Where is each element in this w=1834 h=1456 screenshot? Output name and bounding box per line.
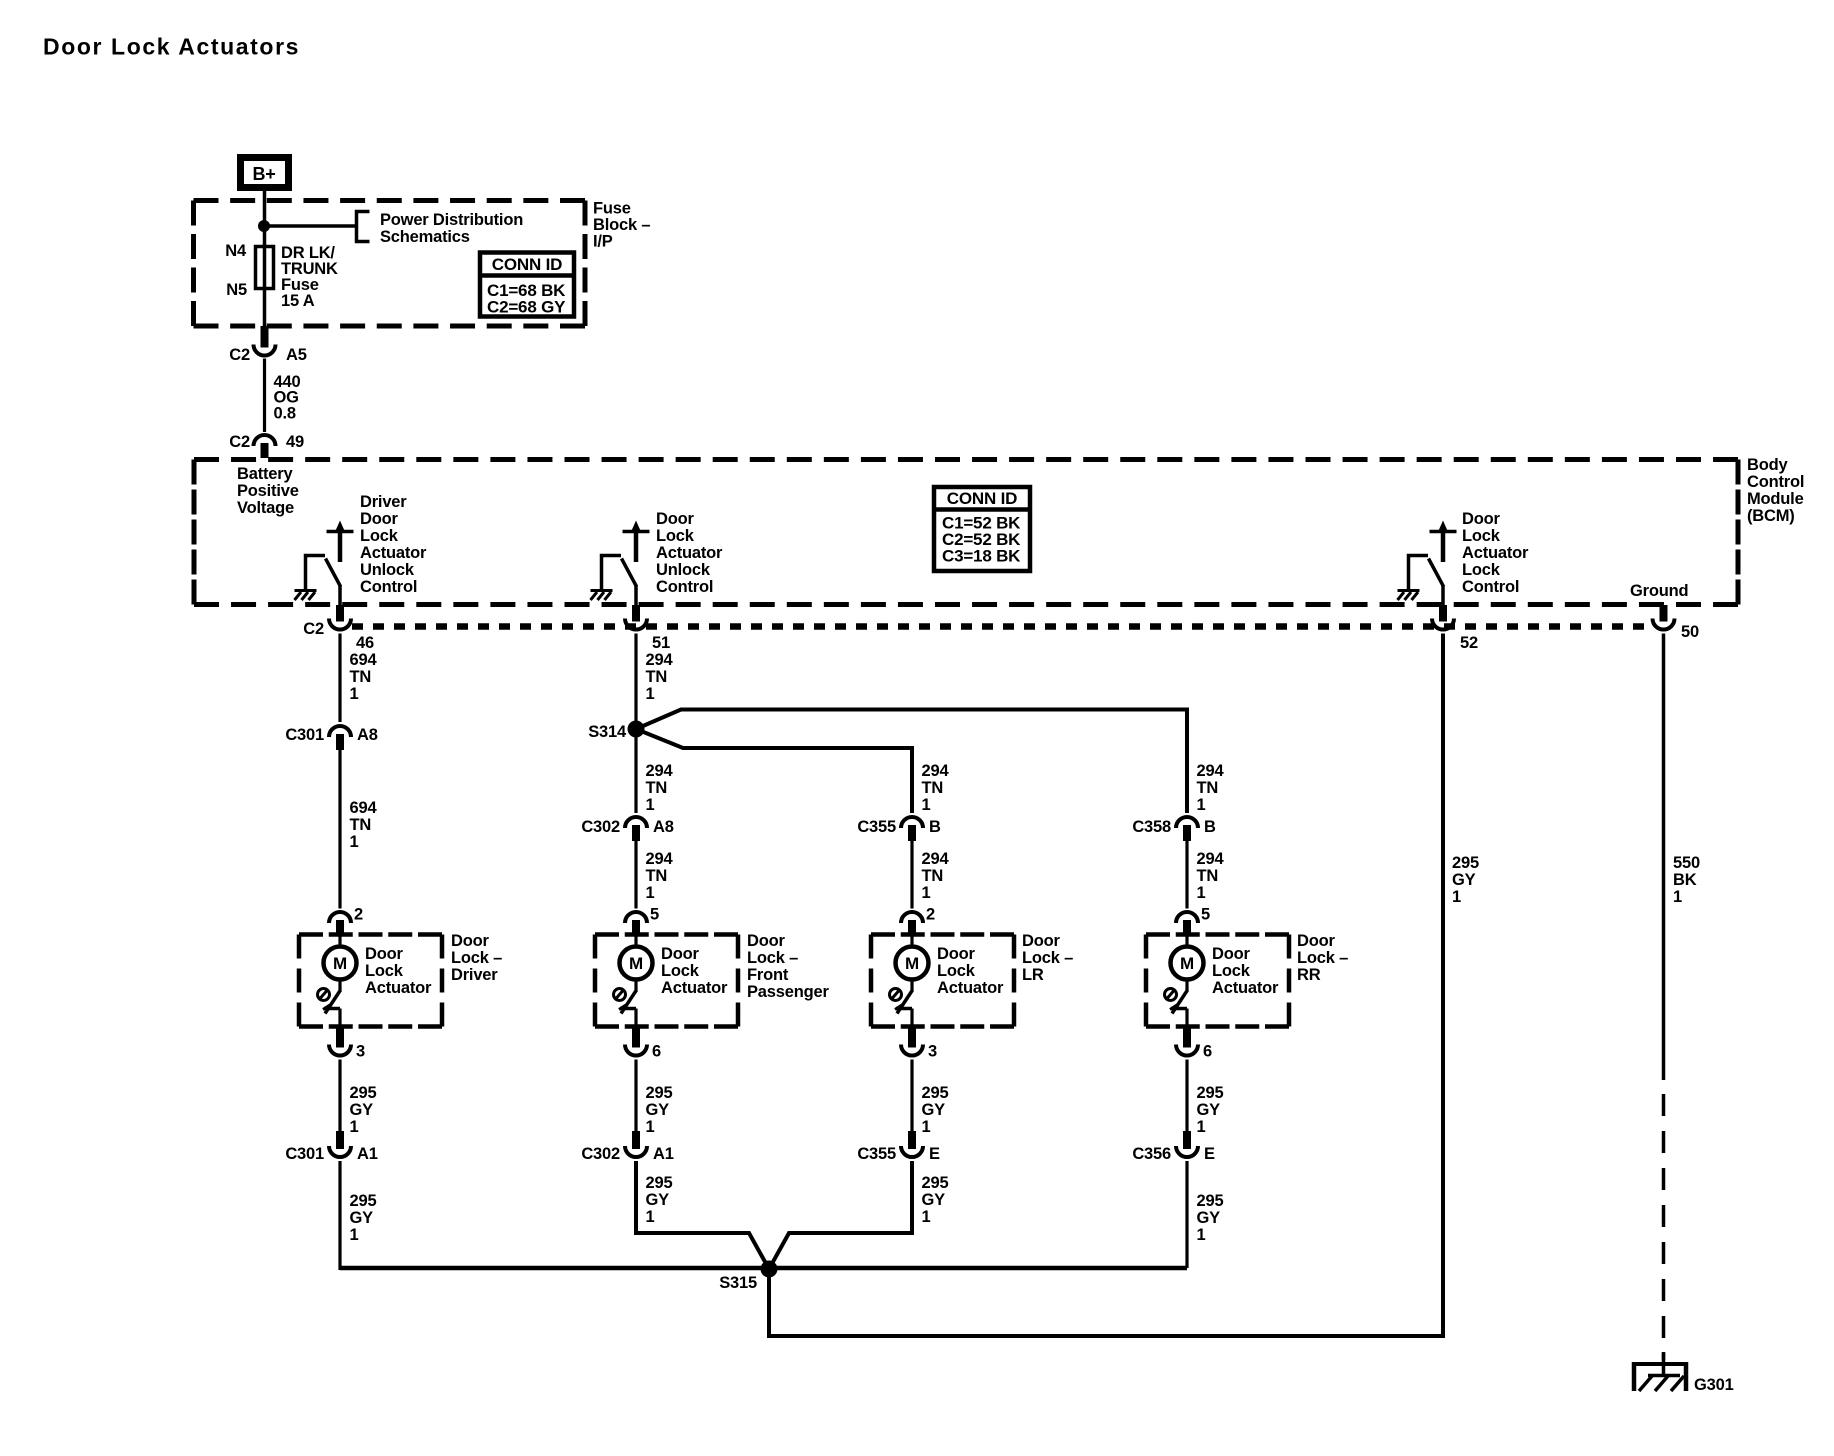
svg-text:Passenger: Passenger [747, 983, 829, 1001]
svg-text:Front: Front [747, 966, 789, 984]
svg-text:Lock: Lock [1212, 962, 1251, 980]
svg-text:C355: C355 [857, 818, 896, 836]
connector C2 pin 49 [229, 433, 304, 458]
connector C356 pin E [1132, 1131, 1215, 1163]
bracket: Power Distribution Schematics [357, 211, 524, 246]
svg-text:Driver: Driver [360, 493, 407, 511]
label G301 [1694, 1376, 1734, 1394]
svg-text:Actuator: Actuator [1212, 979, 1279, 997]
label: Door Lock - Front Passenger [747, 932, 829, 1001]
svg-text:GY: GY [1197, 1101, 1221, 1119]
svg-text:E: E [929, 1145, 940, 1163]
svg-text:Unlock: Unlock [360, 561, 415, 579]
svg-text:C302: C302 [581, 1145, 620, 1163]
svg-text:GY: GY [646, 1191, 670, 1209]
svg-text:GY: GY [1197, 1209, 1221, 1227]
svg-text:Door: Door [747, 932, 785, 950]
node S315 splice [719, 1261, 777, 1293]
svg-text:1: 1 [922, 796, 931, 814]
connector C2 pin A5 [229, 326, 306, 364]
connector pin 5 (front passenger actuator) [625, 906, 659, 937]
svg-text:C301: C301 [285, 726, 324, 744]
svg-text:B+: B+ [252, 164, 275, 184]
node: junction on B+ feed [258, 220, 270, 232]
svg-text:M: M [333, 954, 347, 973]
svg-text:1: 1 [1197, 884, 1206, 902]
svg-text:Ground: Ground [1630, 582, 1688, 600]
svg-text:C301: C301 [285, 1145, 324, 1163]
svg-text:294: 294 [922, 850, 950, 868]
wire 294 TN (C355 to actuator) [912, 841, 949, 909]
svg-text:Battery: Battery [237, 465, 293, 483]
svg-text:Schematics: Schematics [380, 228, 470, 246]
svg-text:M: M [1180, 954, 1194, 973]
label: Door Lock Actuator Unlock Control [656, 510, 723, 596]
connector C301 pin A8 [285, 726, 377, 750]
svg-text:C2: C2 [229, 433, 250, 451]
switch: Driver Door Lock Actuator Unlock Control [295, 521, 354, 606]
svg-text:1: 1 [646, 1118, 655, 1136]
svg-text:52: 52 [1460, 634, 1478, 652]
svg-text:Door: Door [1297, 932, 1335, 950]
svg-text:15 A: 15 A [281, 292, 315, 310]
svg-text:Unlock: Unlock [656, 561, 711, 579]
svg-text:G301: G301 [1694, 1376, 1734, 1394]
motor M1 door lock actuator driver [318, 933, 357, 1029]
svg-text:49: 49 [286, 433, 304, 451]
switch: Door Lock Actuator Lock Control [1398, 521, 1457, 606]
wire 295 GY (C355 to S315) [769, 1161, 948, 1269]
label: Door Lock - Driver [451, 932, 502, 984]
svg-text:294: 294 [646, 651, 674, 669]
svg-text:Lock: Lock [656, 527, 695, 545]
wire 294 TN (C302 to actuator) [636, 841, 673, 909]
wire S314 branch to RR (C358) [636, 710, 1187, 814]
svg-text:1: 1 [350, 1118, 359, 1136]
svg-text:Actuator: Actuator [1462, 544, 1529, 562]
svg-text:I/P: I/P [593, 233, 613, 251]
connector C358 pin B [1132, 817, 1216, 841]
svg-text:2: 2 [354, 906, 363, 924]
svg-text:A8: A8 [357, 726, 378, 744]
svg-text:1: 1 [1673, 888, 1682, 906]
svg-text:B: B [929, 818, 941, 836]
svg-text:N5: N5 [226, 281, 247, 299]
wire: S315 bus (driver to RR) [340, 1266, 1187, 1271]
wire 694 TN (C301 to actuator) [340, 750, 377, 909]
label: Ground [1630, 582, 1688, 600]
connector pin 51 [625, 605, 670, 652]
svg-text:1: 1 [922, 884, 931, 902]
svg-text:295: 295 [350, 1192, 377, 1210]
ground G301 symbol [1632, 1352, 1688, 1391]
svg-text:294: 294 [922, 762, 950, 780]
svg-text:Door Lock Actuators: Door Lock Actuators [43, 34, 300, 60]
svg-text:TN: TN [646, 668, 668, 686]
svg-text:Control: Control [1462, 578, 1519, 596]
svg-text:294: 294 [1197, 762, 1225, 780]
pin N4 [225, 242, 247, 260]
label: Battery Positive Voltage [237, 465, 299, 517]
svg-text:Lock –: Lock – [1297, 949, 1348, 967]
svg-text:294: 294 [646, 762, 674, 780]
switch: Door Lock Actuator Unlock Control (front passenger) [591, 521, 650, 606]
svg-text:2: 2 [926, 906, 935, 924]
svg-text:51: 51 [652, 634, 670, 652]
svg-text:TN: TN [646, 779, 668, 797]
svg-text:1: 1 [1197, 1118, 1206, 1136]
svg-text:(BCM): (BCM) [1747, 507, 1795, 525]
svg-text:Power Distribution: Power Distribution [380, 211, 523, 229]
svg-text:Control: Control [656, 578, 713, 596]
connector C355 pin B [857, 817, 941, 841]
svg-text:3: 3 [356, 1043, 365, 1061]
svg-text:6: 6 [1203, 1043, 1212, 1061]
svg-text:C2: C2 [303, 620, 324, 638]
svg-text:TN: TN [350, 816, 372, 834]
svg-text:S314: S314 [588, 723, 627, 741]
label: Door Lock Actuator [661, 945, 728, 997]
svg-text:1: 1 [646, 796, 655, 814]
svg-text:1: 1 [922, 1208, 931, 1226]
wire S314 branch to LR (C355) [636, 729, 912, 813]
motor M3 door lock actuator LR [890, 933, 929, 1029]
svg-text:6: 6 [652, 1043, 661, 1061]
svg-text:GY: GY [1452, 871, 1476, 889]
wire label 294 TN (branch to C358) [1197, 762, 1225, 814]
svg-text:Lock: Lock [1462, 561, 1501, 579]
svg-text:Actuator: Actuator [937, 979, 1004, 997]
svg-text:46: 46 [356, 634, 374, 652]
svg-text:Actuator: Actuator [656, 544, 723, 562]
svg-text:Actuator: Actuator [661, 979, 728, 997]
svg-text:TN: TN [922, 779, 944, 797]
label: Door Lock - RR [1297, 932, 1348, 984]
svg-text:295: 295 [350, 1084, 377, 1102]
svg-text:Driver: Driver [451, 966, 498, 984]
svg-text:Body: Body [1747, 456, 1788, 474]
wire 295 GY (pin3 to C355) [912, 1060, 948, 1137]
label: Door Lock - LR [1022, 932, 1073, 984]
wire 295 GY (C301 to S315) [340, 1161, 376, 1270]
svg-text:Control: Control [360, 578, 417, 596]
svg-text:294: 294 [646, 850, 674, 868]
door lock actuator (front passenger) dashed box [595, 935, 738, 1027]
svg-text:Fuse: Fuse [593, 200, 631, 218]
label: Door Lock Actuator [365, 945, 432, 997]
value label: DR LK/TRUNK Fuse 15 A [281, 244, 338, 310]
wire 295 GY (pin3 to C301) [340, 1060, 376, 1137]
svg-text:1: 1 [646, 1208, 655, 1226]
svg-text:Door: Door [1462, 510, 1500, 528]
svg-text:1: 1 [646, 685, 655, 703]
svg-text:Door: Door [656, 510, 694, 528]
node S314 splice [588, 721, 644, 742]
connector C2 pin 46 [303, 605, 374, 652]
label: Door Lock Actuator [1212, 945, 1279, 997]
wire label 295 GY (lock control) [1452, 854, 1479, 906]
svg-text:A5: A5 [286, 346, 307, 364]
svg-text:Lock: Lock [937, 962, 976, 980]
svg-text:Door: Door [1212, 945, 1250, 963]
svg-text:295: 295 [922, 1174, 949, 1192]
svg-text:B: B [1204, 818, 1216, 836]
svg-text:Door: Door [937, 945, 975, 963]
wire to Power Distribution Schematics reference [264, 224, 356, 228]
svg-text:TN: TN [922, 867, 944, 885]
svg-text:CONN ID: CONN ID [492, 255, 562, 274]
svg-text:50: 50 [1681, 623, 1699, 641]
wire label 294 TN (branch to C355) [922, 762, 950, 814]
connector pin 2 (LR actuator) [901, 906, 935, 937]
svg-text:295: 295 [922, 1084, 949, 1102]
svg-text:C302: C302 [581, 818, 620, 836]
wire 550 BK (pin 50 to G301), solid part [1664, 634, 1700, 1081]
svg-text:3: 3 [928, 1043, 937, 1061]
svg-text:Lock: Lock [1462, 527, 1501, 545]
svg-text:GY: GY [646, 1101, 670, 1119]
svg-text:TN: TN [350, 668, 372, 686]
svg-text:BK: BK [1673, 871, 1697, 889]
svg-text:1: 1 [350, 833, 359, 851]
svg-text:295: 295 [1197, 1192, 1224, 1210]
svg-text:294: 294 [1197, 850, 1225, 868]
svg-text:LR: LR [1022, 966, 1044, 984]
svg-text:1: 1 [922, 1118, 931, 1136]
svg-text:1: 1 [1452, 888, 1461, 906]
svg-text:C356: C356 [1132, 1145, 1171, 1163]
svg-text:1: 1 [350, 1226, 359, 1244]
svg-text:694: 694 [350, 651, 378, 669]
wire 295 GY (C356 to S315) [1187, 1161, 1223, 1268]
wire 440 OG 0.8 [265, 359, 301, 433]
wire 294 TN (C358 to actuator) [1187, 841, 1224, 909]
wire 295 GY (pin6 to C302) [636, 1060, 672, 1137]
label: Door Lock Actuator Lock Control [1462, 510, 1529, 596]
svg-text:Door: Door [360, 510, 398, 528]
svg-text:RR: RR [1297, 966, 1321, 984]
connector pin 6 (front passenger actuator) [625, 1027, 661, 1061]
wire 694 TN (pin 46 to C301) [340, 634, 377, 723]
svg-text:Door: Door [365, 945, 403, 963]
motor M4 door lock actuator RR [1165, 933, 1204, 1029]
connector pin 3 (driver actuator) [329, 1027, 365, 1061]
svg-text:Door: Door [1022, 932, 1060, 950]
svg-text:295: 295 [1197, 1084, 1224, 1102]
svg-text:550: 550 [1673, 854, 1700, 872]
svg-text:GY: GY [350, 1101, 374, 1119]
wire 550 BK dashed continuation [1662, 1094, 1666, 1360]
svg-text:5: 5 [1201, 906, 1210, 924]
wire label 294 TN (S314 to C302) [646, 762, 674, 814]
label: Fuse Block - I/P [593, 200, 650, 251]
svg-text:GY: GY [922, 1101, 946, 1119]
svg-text:TN: TN [1197, 779, 1219, 797]
fuse block I/P dashed outline [194, 201, 586, 327]
fuse F: DR LK/TRUNK Fuse 15 A [256, 247, 274, 289]
label: Driver Door Lock Actuator Unlock Control [360, 493, 427, 596]
Body Control Module (BCM) dashed outline [194, 460, 1738, 605]
svg-text:C2=68 GY: C2=68 GY [487, 298, 566, 317]
svg-text:GY: GY [350, 1209, 374, 1227]
svg-text:1: 1 [1197, 796, 1206, 814]
door lock actuator (driver) dashed box [299, 935, 442, 1027]
connector pin 3 (LR actuator) [901, 1027, 937, 1061]
svg-text:TN: TN [1197, 867, 1219, 885]
wire 295 GY (pin6 to C356) [1187, 1060, 1223, 1137]
svg-text:Door: Door [451, 932, 489, 950]
label: Door Lock Actuator [937, 945, 1004, 997]
svg-text:Lock: Lock [365, 962, 404, 980]
connector pin 6 (RR actuator) [1176, 1027, 1212, 1061]
battery terminal B+ [241, 158, 289, 188]
svg-text:Control: Control [1747, 473, 1804, 491]
svg-text:Module: Module [1747, 490, 1804, 508]
door lock actuator (RR) dashed box [1146, 935, 1289, 1027]
connector C301 pin A1 [285, 1131, 377, 1163]
svg-text:Block –: Block – [593, 216, 650, 234]
svg-text:S315: S315 [719, 1274, 757, 1292]
svg-text:TN: TN [646, 867, 668, 885]
svg-text:295: 295 [646, 1174, 673, 1192]
svg-text:Lock: Lock [661, 962, 700, 980]
connector pin 5 (RR actuator) [1176, 906, 1210, 937]
svg-text:Actuator: Actuator [365, 979, 432, 997]
svg-text:Actuator: Actuator [360, 544, 427, 562]
svg-text:CONN ID: CONN ID [947, 489, 1017, 508]
svg-text:A1: A1 [357, 1145, 378, 1163]
svg-text:Lock –: Lock – [1022, 949, 1073, 967]
motor M2 door lock actuator front passenger [614, 933, 653, 1029]
connector C302 pin A1 [581, 1131, 673, 1163]
CONN ID table (fuse block) [480, 253, 574, 317]
svg-text:E: E [1204, 1145, 1215, 1163]
connector pin 50 [1653, 605, 1699, 641]
wire B+ to fuse block [263, 191, 267, 327]
svg-text:M: M [629, 954, 643, 973]
title: Door Lock Actuators [43, 34, 300, 60]
svg-text:C358: C358 [1132, 818, 1171, 836]
svg-text:1: 1 [350, 685, 359, 703]
svg-text:694: 694 [350, 799, 378, 817]
svg-text:Lock –: Lock – [451, 949, 502, 967]
dotted connector line C2 across BCM pins [352, 623, 1653, 630]
connector C355 pin E [857, 1131, 940, 1163]
svg-text:N4: N4 [225, 242, 247, 260]
pin N5 [226, 281, 247, 299]
svg-text:1: 1 [646, 884, 655, 902]
svg-text:5: 5 [650, 906, 659, 924]
CONN ID table (BCM) [934, 487, 1030, 571]
svg-text:C3=18 BK: C3=18 BK [942, 547, 1021, 566]
connector C302 pin A8 [581, 817, 673, 841]
svg-text:M: M [905, 954, 919, 973]
connector pin 2 (driver actuator) [329, 906, 363, 937]
wire 295 GY (C302 to S315) [636, 1161, 769, 1269]
connector pin 52 [1432, 605, 1478, 652]
svg-text:C355: C355 [857, 1145, 896, 1163]
wire: S315 to lock control pin 52 [769, 634, 1443, 1337]
svg-text:Lock –: Lock – [747, 949, 798, 967]
label: Body Control Module (BCM) [1747, 456, 1804, 525]
svg-text:Voltage: Voltage [237, 499, 294, 517]
svg-text:A1: A1 [653, 1145, 674, 1163]
svg-text:295: 295 [1452, 854, 1479, 872]
svg-text:Door: Door [661, 945, 699, 963]
svg-text:A8: A8 [653, 818, 674, 836]
svg-text:Positive: Positive [237, 482, 299, 500]
svg-text:295: 295 [646, 1084, 673, 1102]
door lock actuator (LR) dashed box [871, 935, 1014, 1027]
svg-text:1: 1 [1197, 1226, 1206, 1244]
wire 294 TN (pin 51 to S314) [636, 634, 673, 814]
svg-text:0.8: 0.8 [274, 404, 296, 422]
svg-text:Lock: Lock [360, 527, 399, 545]
svg-text:GY: GY [922, 1191, 946, 1209]
svg-text:C2: C2 [229, 346, 250, 364]
